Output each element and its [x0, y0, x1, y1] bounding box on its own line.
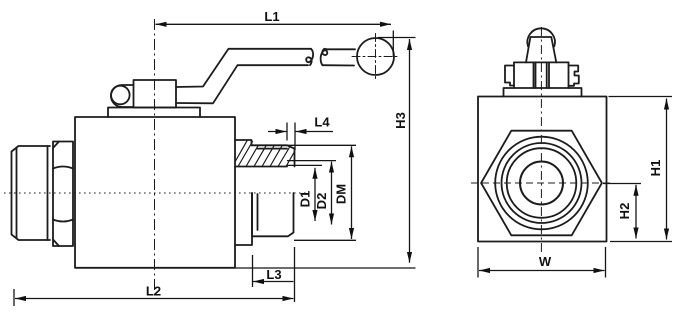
svg-text:W: W: [539, 254, 552, 269]
right clamp bracket: [569, 66, 579, 86]
dimension labels, left view: [146, 9, 408, 299]
svg-text:L4: L4: [314, 115, 330, 130]
dimension L3: [253, 247, 295, 302]
dimension D1: [287, 165, 322, 221]
base plate (front): [504, 88, 582, 97]
dimension D2: [287, 161, 336, 225]
dimension labels, right view: [539, 160, 663, 269]
svg-text:H2: H2: [617, 203, 632, 220]
handle break symbol: [306, 49, 355, 66]
handle ball (front, dome): [527, 28, 555, 46]
horizontal centerline (dotted): [4, 192, 308, 194]
stem boss (rounded): [111, 85, 134, 107]
dimension graphics, right view: [478, 97, 672, 278]
handle lever (bent bar): [176, 49, 311, 104]
valve body (side view): [75, 117, 235, 268]
handle grip (front, trapezoid): [526, 37, 556, 62]
dimension DM: [252, 145, 357, 240]
svg-text:D1: D1: [298, 191, 313, 208]
dimension H3: [235, 38, 416, 269]
handle ball knob: [357, 38, 394, 75]
svg-text:D2: D2: [314, 193, 329, 210]
left clamp bracket: [505, 66, 514, 86]
stem flange plate: [108, 108, 200, 118]
svg-text:DM: DM: [334, 184, 349, 204]
stem assembly row: [514, 62, 569, 88]
dimension W: [478, 247, 606, 278]
dimension H1: [609, 97, 673, 242]
valve body (front view): [478, 97, 607, 242]
ball crosshair centerlines: [352, 34, 399, 81]
hex nut (front view): [481, 131, 602, 236]
left hex nut: [53, 142, 73, 247]
concentric circles: [495, 137, 588, 230]
dimension L2: [14, 289, 294, 306]
svg-text:H1: H1: [648, 160, 663, 177]
dimension graphics, left view: [14, 24, 416, 306]
dimension L4: [268, 123, 333, 151]
svg-text:H3: H3: [393, 112, 408, 129]
section hatching: [236, 141, 295, 167]
stem block: [134, 80, 177, 108]
svg-text:L3: L3: [266, 267, 281, 282]
vertical centerline (dash-dot): [154, 19, 156, 297]
dimension L1: [156, 24, 394, 57]
vertical centerline: [540, 27, 542, 253]
right port: hex collar section outline: [235, 140, 252, 245]
dimension H2: [603, 184, 641, 239]
horizontal centerline: [471, 182, 612, 184]
right port: thread stub outline: [235, 145, 295, 236]
boss circle: [111, 86, 130, 105]
svg-text:L1: L1: [264, 9, 279, 24]
centerlines, right view: [471, 27, 612, 253]
left plug (threaded male end): [12, 146, 51, 240]
centerlines, left view: [4, 19, 308, 297]
svg-text:L2: L2: [146, 284, 161, 299]
